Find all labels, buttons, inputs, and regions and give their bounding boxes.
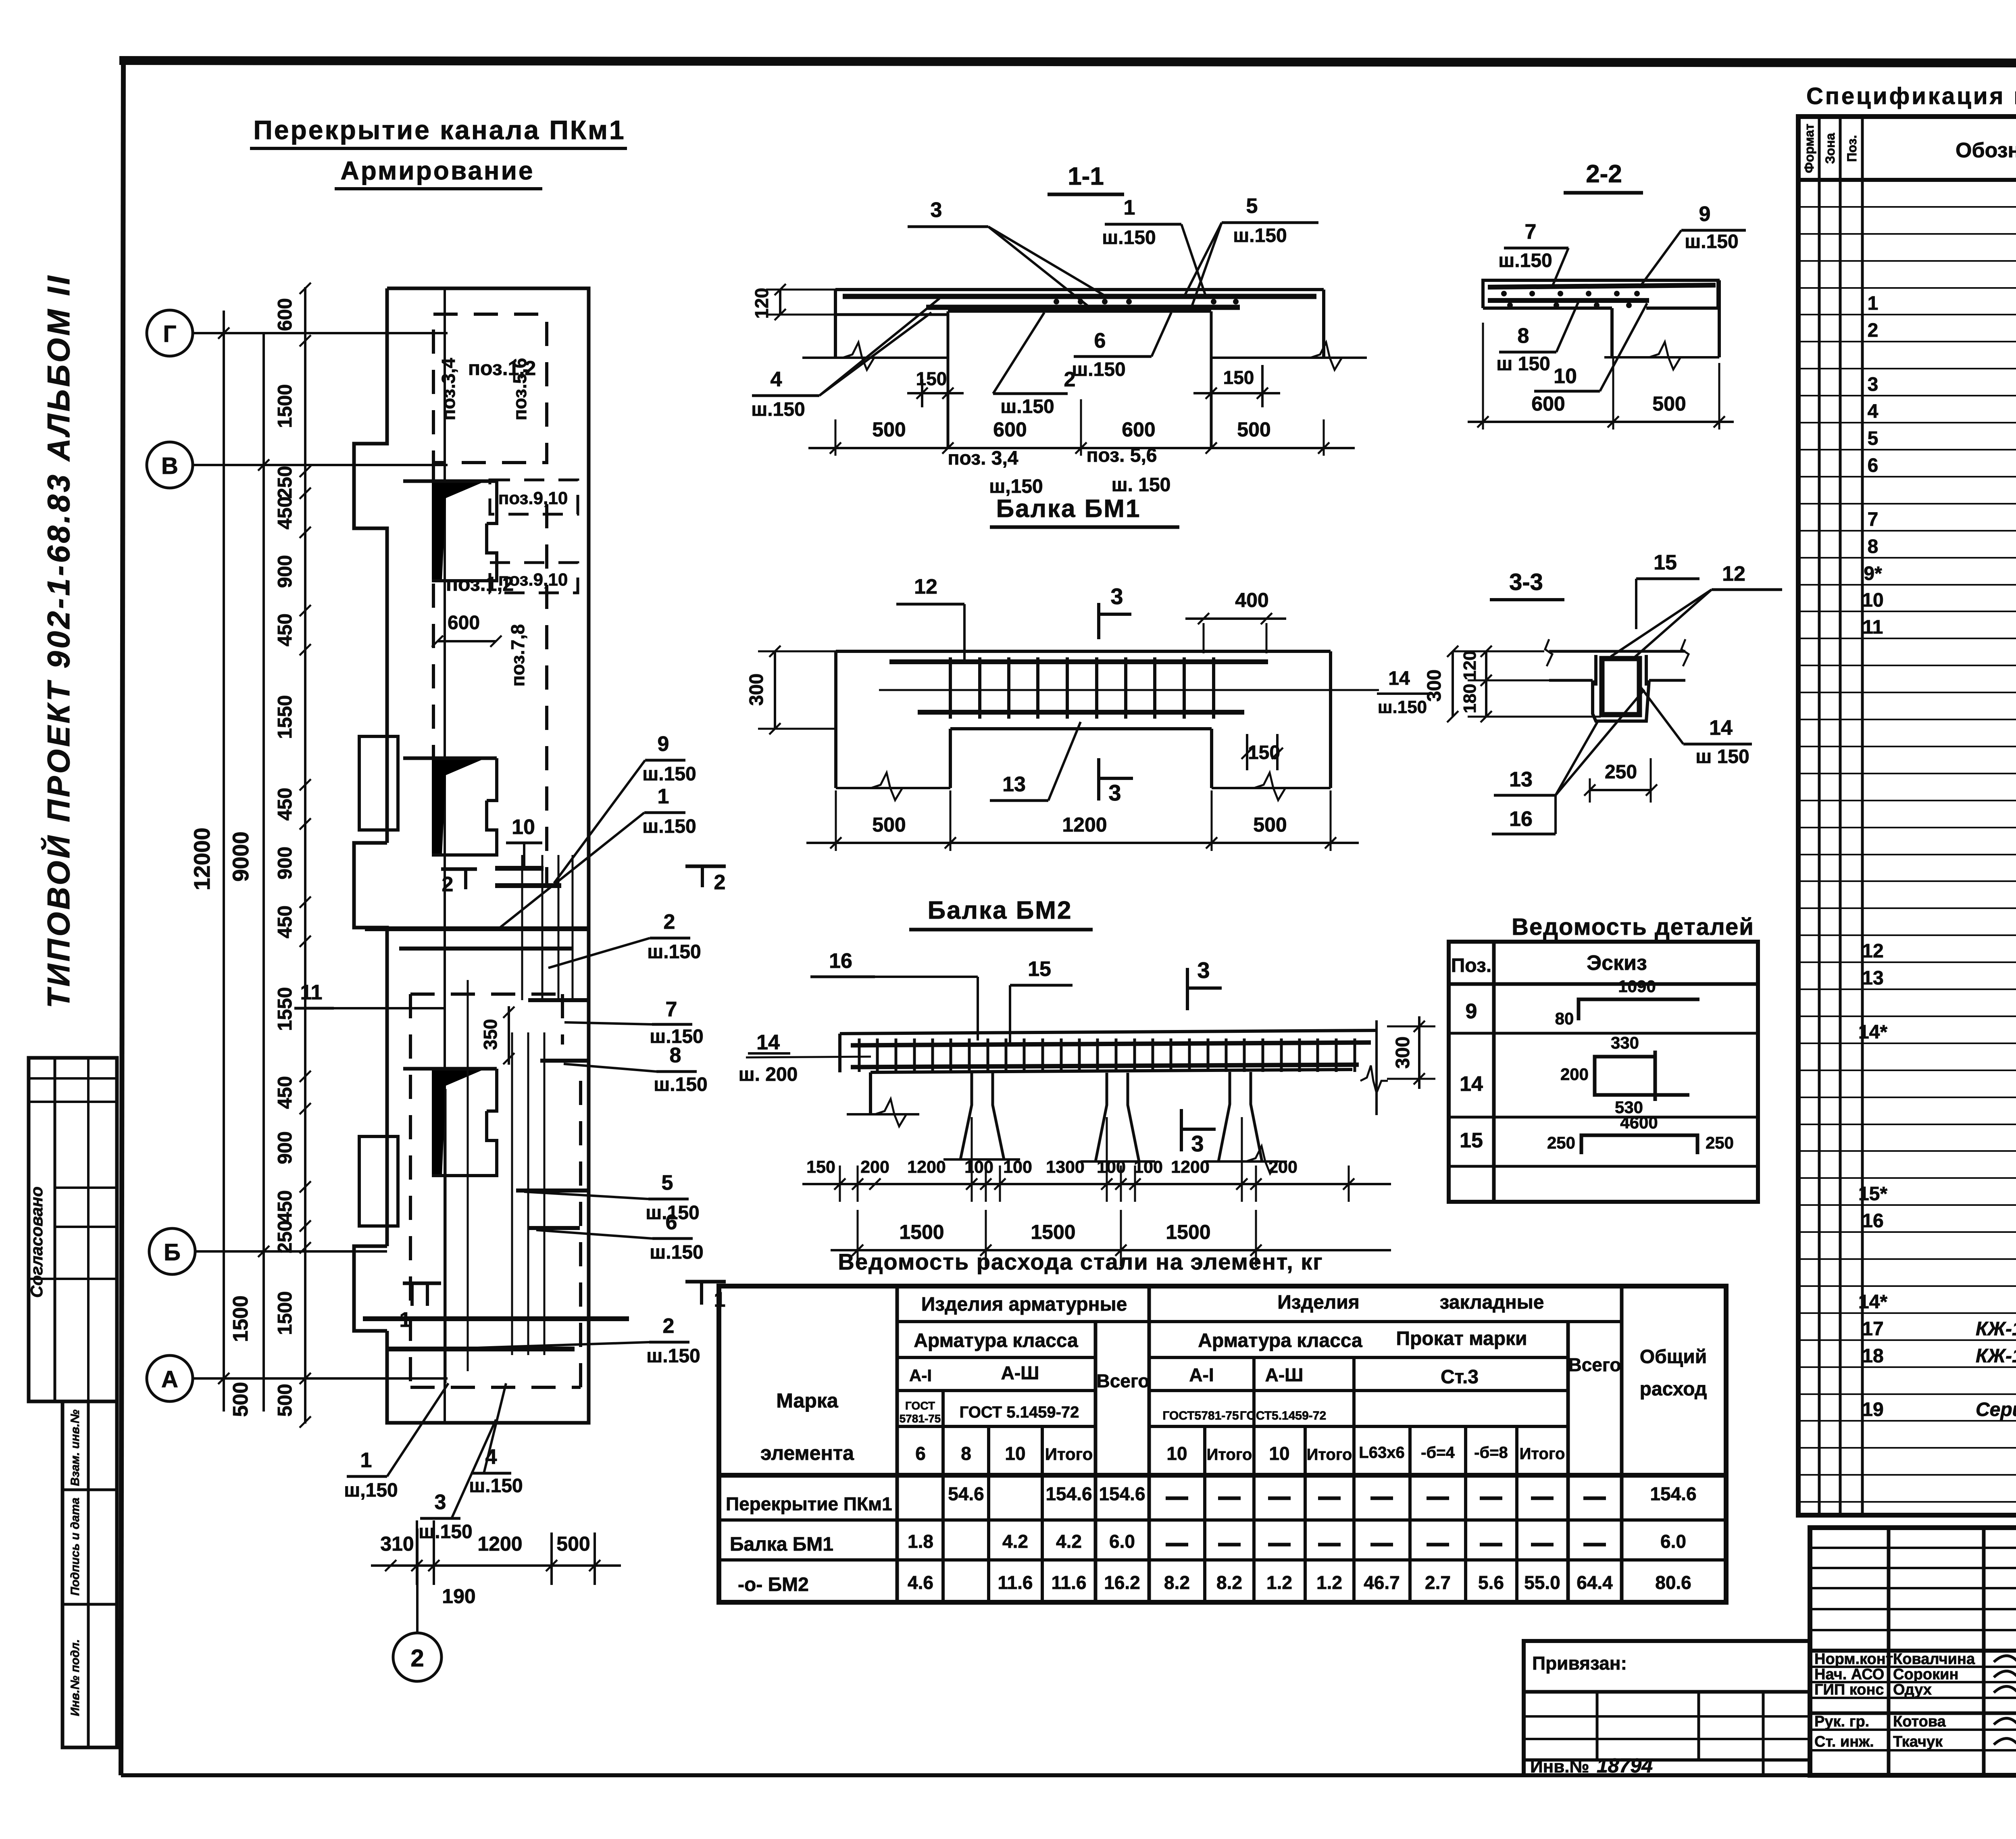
svg-text:4.2: 4.2 bbox=[1002, 1531, 1028, 1552]
long thin bar verticals bbox=[521, 855, 523, 1000]
svg-text:1500: 1500 bbox=[899, 1221, 944, 1243]
svg-text:350: 350 bbox=[480, 1019, 501, 1050]
svg-text:14*: 14* bbox=[1858, 1291, 1887, 1313]
svg-text:Перекрытие ПКм1: Перекрытие ПКм1 bbox=[726, 1493, 892, 1514]
svg-text:12: 12 bbox=[914, 575, 937, 598]
svg-text:В: В bbox=[161, 453, 178, 479]
svg-text:1: 1 bbox=[1868, 293, 1879, 314]
svg-text:15*: 15* bbox=[1858, 1183, 1887, 1205]
svg-text:5: 5 bbox=[1868, 428, 1879, 449]
svg-text:ш. 150: ш. 150 bbox=[1112, 474, 1171, 496]
svg-text:2: 2 bbox=[663, 1314, 675, 1338]
section mark 2T left bbox=[441, 867, 477, 871]
section mark T2 right bbox=[685, 865, 726, 868]
dim 250 bbox=[1590, 789, 1652, 791]
svg-text:1300: 1300 bbox=[1046, 1157, 1085, 1177]
BM2 dim row 1 bbox=[802, 1183, 1391, 1185]
svg-text:ш.150: ш.150 bbox=[650, 1242, 703, 1263]
svg-text:8.2: 8.2 bbox=[1164, 1572, 1190, 1593]
ground break lines 1-1 bbox=[802, 357, 948, 359]
signoff rows bbox=[1810, 1666, 2016, 1668]
svg-text:1.2: 1.2 bbox=[1266, 1572, 1292, 1593]
dashed zone top rect bbox=[433, 314, 547, 463]
slab outline 1-1 bbox=[835, 288, 1324, 291]
svg-text:1.2: 1.2 bbox=[1316, 1572, 1342, 1593]
svg-text:900: 900 bbox=[274, 1131, 296, 1164]
BM1 top bar bbox=[889, 659, 1268, 664]
axis circle А bbox=[147, 1355, 193, 1401]
svg-text:500: 500 bbox=[1253, 813, 1287, 836]
svg-text:поз.5,6: поз.5,6 bbox=[509, 358, 530, 421]
svg-text:ш.150: ш.150 bbox=[1685, 231, 1738, 252]
svg-text:11.6: 11.6 bbox=[998, 1572, 1033, 1593]
svg-text:310: 310 bbox=[380, 1532, 414, 1555]
svg-text:1: 1 bbox=[1124, 196, 1135, 219]
svg-text:11: 11 bbox=[300, 981, 323, 1004]
svg-text:Г: Г bbox=[163, 321, 177, 347]
svg-text:4600: 4600 bbox=[1620, 1113, 1658, 1132]
svg-text:поз.3,4: поз.3,4 bbox=[438, 358, 459, 420]
steel horizontals bbox=[897, 1320, 1622, 1323]
small left notch boxes bbox=[359, 736, 398, 830]
plan outline bbox=[387, 288, 589, 1423]
svg-text:3: 3 bbox=[1191, 1131, 1204, 1156]
svg-text:Котова: Котова bbox=[1893, 1713, 1946, 1730]
svg-text:10: 10 bbox=[1862, 590, 1883, 611]
svg-text:64.4: 64.4 bbox=[1577, 1572, 1613, 1593]
svg-text:12: 12 bbox=[1862, 940, 1883, 962]
svg-text:1500: 1500 bbox=[274, 384, 296, 428]
BM1 leader line 14 bbox=[879, 689, 1379, 691]
svg-text:ш.150: ш.150 bbox=[751, 399, 805, 420]
svg-text:6.0: 6.0 bbox=[1660, 1531, 1686, 1552]
svg-text:Поз.: Поз. bbox=[1845, 135, 1859, 162]
svg-text:Всего: Всего bbox=[1096, 1370, 1149, 1391]
BM1 outline bbox=[836, 650, 1331, 653]
svg-text:100: 100 bbox=[1134, 1157, 1163, 1177]
svg-text:1200: 1200 bbox=[907, 1157, 946, 1177]
svg-text:200: 200 bbox=[1560, 1065, 1589, 1084]
svg-text:1-1: 1-1 bbox=[1068, 163, 1104, 190]
svg-text:16.2: 16.2 bbox=[1104, 1572, 1140, 1593]
dashes row1 and row2 bbox=[1166, 1497, 1188, 1500]
svg-text:8: 8 bbox=[1868, 536, 1879, 557]
svg-text:Серия 3.400- 6/76: Серия 3.400- 6/76 bbox=[1976, 1399, 2016, 1420]
svg-text:Армирование: Армирование bbox=[340, 156, 534, 185]
svg-text:ГИП конс: ГИП конс bbox=[1814, 1681, 1884, 1698]
svg-text:1500: 1500 bbox=[1031, 1221, 1075, 1243]
svg-text:Прокат марки: Прокат марки bbox=[1396, 1328, 1527, 1349]
svg-text:1500: 1500 bbox=[229, 1295, 252, 1342]
svg-text:16: 16 bbox=[829, 949, 852, 973]
BM1 dim 400 bbox=[1203, 623, 1205, 653]
svg-text:Сорокин: Сорокин bbox=[1893, 1666, 1958, 1683]
svg-text:Итого: Итого bbox=[1045, 1445, 1093, 1464]
svg-text:Изделия арматурные: Изделия арматурные bbox=[921, 1294, 1127, 1315]
svg-text:поз. 3,4: поз. 3,4 bbox=[948, 448, 1018, 469]
svg-text:ГОСТ 5.1459-72: ГОСТ 5.1459-72 bbox=[960, 1403, 1079, 1421]
svg-text:ш.150: ш.150 bbox=[1000, 396, 1054, 417]
svg-text:1090: 1090 bbox=[1618, 977, 1656, 996]
svg-text:-б=4: -б=4 bbox=[1421, 1444, 1455, 1462]
svg-text:ш.150: ш.150 bbox=[1102, 227, 1156, 248]
svg-text:1: 1 bbox=[360, 1449, 372, 1472]
svg-text:3: 3 bbox=[1110, 584, 1123, 609]
BM1 bottom dims bbox=[835, 790, 837, 851]
svg-text:Норм.конт: Норм.конт bbox=[1814, 1651, 1893, 1668]
axis line А bbox=[193, 1377, 448, 1380]
BM1 bottom bar bbox=[918, 710, 1244, 715]
svg-text:1500: 1500 bbox=[274, 1291, 296, 1335]
dim 150 right wall bbox=[1261, 365, 1264, 407]
svg-text:2: 2 bbox=[1868, 320, 1879, 341]
svg-text:13: 13 bbox=[1002, 773, 1026, 796]
svg-text:Формат: Формат bbox=[1802, 124, 1816, 173]
svg-text:1500: 1500 bbox=[1166, 1221, 1210, 1243]
svg-text:200: 200 bbox=[1268, 1157, 1297, 1177]
axis line Б bbox=[195, 1250, 387, 1253]
svg-text:Всего: Всего bbox=[1568, 1354, 1621, 1375]
svg-text:ш 150: ш 150 bbox=[1496, 353, 1550, 375]
svg-text:600: 600 bbox=[993, 418, 1027, 441]
svg-text:Привязан:: Привязан: bbox=[1532, 1653, 1627, 1674]
svg-text:14*: 14* bbox=[1858, 1022, 1887, 1043]
BM2 top bar bbox=[851, 1043, 1371, 1045]
svg-text:13: 13 bbox=[1509, 768, 1533, 791]
axis line В bbox=[193, 464, 448, 466]
svg-text:15: 15 bbox=[1460, 1129, 1483, 1152]
left small rows bbox=[1810, 1547, 2016, 1549]
svg-text:ш.150: ш.150 bbox=[646, 1345, 700, 1367]
svg-text:300: 300 bbox=[1392, 1036, 1414, 1069]
svg-text:ш. 200: ш. 200 bbox=[739, 1064, 798, 1085]
svg-text:Инв.№: Инв.№ bbox=[1530, 1757, 1589, 1776]
BM2 stirrups bbox=[858, 1038, 861, 1072]
svg-text:Ведомость расхода стали: Ведомость расхода стали на элемент, кг bbox=[838, 1249, 1323, 1274]
svg-text:330: 330 bbox=[1611, 1033, 1639, 1052]
dim 300 bbox=[1452, 651, 1454, 717]
spec header row bbox=[1798, 178, 2016, 182]
svg-text:600: 600 bbox=[1122, 418, 1155, 441]
svg-text:Спецификация перекрытия ка: Спецификация перекрытия канала ПКм1 и ба… bbox=[1806, 83, 2016, 109]
svg-text:А: А bbox=[161, 1366, 178, 1393]
BM1 section mark 3 top bbox=[1097, 603, 1100, 639]
privyazan box bbox=[1524, 1641, 1810, 1775]
svg-text:250: 250 bbox=[1605, 761, 1637, 783]
svg-text:16: 16 bbox=[1509, 807, 1533, 831]
title block outer bbox=[1810, 1528, 2016, 1775]
svg-text:7: 7 bbox=[1525, 220, 1537, 244]
bottom dims 1-1 bbox=[808, 447, 1355, 449]
svg-text:80: 80 bbox=[1555, 1009, 1574, 1028]
svg-text:ш 150: ш 150 bbox=[1695, 746, 1749, 767]
svg-text:14: 14 bbox=[1709, 716, 1733, 740]
svg-text:300: 300 bbox=[1424, 669, 1445, 702]
svg-text:54.6: 54.6 bbox=[948, 1483, 984, 1504]
svg-text:ТИПОВОЙ ПРОЕКТ 902-1-68.83 АЛЬ: ТИПОВОЙ ПРОЕКТ 902-1-68.83 АЛЬБОМ II bbox=[41, 273, 76, 1008]
svg-text:600: 600 bbox=[448, 612, 480, 634]
svg-text:600: 600 bbox=[1531, 392, 1565, 415]
svg-text:Зона: Зона bbox=[1823, 133, 1837, 164]
svg-text:элемента: элемента bbox=[760, 1442, 854, 1464]
svg-text:14: 14 bbox=[756, 1031, 780, 1054]
svg-text:5: 5 bbox=[1246, 194, 1258, 218]
svg-text:1200: 1200 bbox=[477, 1532, 522, 1555]
svg-text:А-I: А-I bbox=[909, 1366, 932, 1385]
svg-text:10: 10 bbox=[1005, 1443, 1025, 1464]
svg-text:154.6: 154.6 bbox=[1099, 1483, 1145, 1504]
BM2 legs bbox=[869, 1072, 872, 1114]
svg-text:14: 14 bbox=[1388, 668, 1410, 689]
svg-text:6.0: 6.0 bbox=[1109, 1531, 1135, 1552]
section mark T1 right bbox=[685, 1280, 726, 1284]
svg-text:154.6: 154.6 bbox=[1045, 1483, 1092, 1504]
spec thin row lines bbox=[1798, 206, 2016, 208]
svg-text:ш.150: ш.150 bbox=[654, 1074, 707, 1095]
svg-text:6: 6 bbox=[1868, 455, 1879, 476]
axis circle Г bbox=[147, 310, 193, 356]
svg-text:Итого: Итого bbox=[1307, 1446, 1352, 1464]
break line 2-2 bbox=[1604, 356, 1719, 359]
title block verticals bbox=[1887, 1528, 1891, 1775]
svg-text:10: 10 bbox=[1166, 1443, 1187, 1464]
svg-text:100: 100 bbox=[1003, 1157, 1032, 1177]
svg-text:3: 3 bbox=[931, 198, 942, 222]
svg-text:ш.150: ш.150 bbox=[647, 941, 701, 963]
svg-text:ш.150: ш.150 bbox=[419, 1521, 472, 1543]
steel table frame bbox=[719, 1286, 1726, 1602]
svg-text:2-2: 2-2 bbox=[1586, 160, 1622, 188]
svg-text:1: 1 bbox=[658, 785, 669, 808]
svg-text:7: 7 bbox=[666, 998, 677, 1021]
svg-text:Балка БМ1: Балка БМ1 bbox=[730, 1534, 833, 1555]
svg-text:Перекрытие канала ПКм1: Перекрытие канала ПКм1 bbox=[253, 115, 625, 145]
svg-text:1550: 1550 bbox=[274, 987, 296, 1031]
svg-text:Одух: Одух bbox=[1893, 1681, 1932, 1698]
svg-text:Ткачук: Ткачук bbox=[1893, 1733, 1943, 1750]
svg-text:300: 300 bbox=[746, 673, 767, 706]
svg-text:Б: Б bbox=[164, 1239, 181, 1266]
lower rebar pos8 bbox=[1488, 298, 1649, 303]
svg-text:500: 500 bbox=[872, 813, 906, 836]
svg-text:180: 180 bbox=[1460, 684, 1480, 713]
svg-text:-б=8: -б=8 bbox=[1474, 1444, 1508, 1462]
svg-text:10: 10 bbox=[1554, 365, 1577, 388]
svg-text:ш.150: ш.150 bbox=[1498, 250, 1552, 271]
svg-text:2: 2 bbox=[410, 1645, 424, 1672]
svg-text:4.6: 4.6 bbox=[908, 1572, 933, 1593]
svg-text:150: 150 bbox=[806, 1157, 835, 1177]
BM1 dim 300 left bbox=[774, 651, 776, 729]
svg-text:Обозначение: Обозначение bbox=[1956, 139, 2016, 162]
dimension line 9000 bbox=[262, 333, 265, 1412]
svg-text:500: 500 bbox=[872, 418, 906, 441]
svg-text:Изделия: Изделия bbox=[1277, 1292, 1360, 1313]
sheet border frame bbox=[119, 60, 2016, 64]
svg-text:10: 10 bbox=[512, 815, 535, 839]
svg-text:Балка БМ2: Балка БМ2 bbox=[928, 897, 1073, 924]
svg-text:9: 9 bbox=[1699, 202, 1711, 226]
svg-text:250: 250 bbox=[274, 1220, 296, 1253]
svg-text:4: 4 bbox=[1868, 401, 1879, 422]
svg-text:10: 10 bbox=[1269, 1443, 1289, 1464]
svg-text:Рук. гр.: Рук. гр. bbox=[1814, 1713, 1869, 1730]
BM1 dim 150 bbox=[1246, 734, 1248, 770]
svg-text:ш.150: ш.150 bbox=[642, 816, 696, 837]
svg-text:18: 18 bbox=[1862, 1345, 1883, 1367]
svg-text:1550: 1550 bbox=[274, 695, 296, 739]
svg-text:А-I: А-I bbox=[1189, 1364, 1214, 1385]
svg-text:Общий: Общий bbox=[1640, 1346, 1707, 1368]
svg-text:Подпись и дата: Подпись и дата bbox=[69, 1497, 82, 1595]
svg-text:250: 250 bbox=[1706, 1133, 1734, 1152]
svg-text:3: 3 bbox=[1197, 957, 1210, 983]
svg-text:Итого: Итого bbox=[1520, 1445, 1565, 1463]
svg-text:ш,150: ш,150 bbox=[989, 476, 1043, 497]
svg-text:Эскиз: Эскиз bbox=[1587, 951, 1647, 975]
svg-text:1.8: 1.8 bbox=[908, 1531, 933, 1552]
svg-text:15: 15 bbox=[1028, 957, 1051, 981]
inner longitudinal line bbox=[444, 288, 446, 1423]
svg-text:11.6: 11.6 bbox=[1052, 1572, 1087, 1593]
svg-text:Инв.№ подл.: Инв.№ подл. bbox=[69, 1639, 82, 1716]
svg-text:900: 900 bbox=[274, 847, 296, 880]
svg-text:6: 6 bbox=[915, 1443, 926, 1464]
dimension line 12000 bbox=[223, 311, 225, 1412]
svg-text:ГОСТ: ГОСТ bbox=[905, 1399, 935, 1412]
svg-text:закладные: закладные bbox=[1440, 1292, 1544, 1313]
hatched wedge teeth (slab steps) bbox=[432, 481, 482, 581]
svg-text:400: 400 bbox=[1235, 589, 1268, 611]
svg-text:17: 17 bbox=[1862, 1318, 1883, 1340]
svg-text:ш.150: ш.150 bbox=[642, 763, 696, 785]
top rebar pos9 bbox=[1488, 285, 1716, 287]
BM2 section mark 3 bottom bbox=[1180, 1109, 1183, 1151]
svg-text:1: 1 bbox=[400, 1308, 411, 1332]
svg-text:1200: 1200 bbox=[1171, 1157, 1210, 1177]
axis line Г bbox=[193, 332, 448, 334]
svg-text:Нач. АСО: Нач. АСО bbox=[1814, 1666, 1884, 1683]
svg-text:450: 450 bbox=[274, 905, 296, 938]
svg-text:500: 500 bbox=[1237, 418, 1270, 441]
svg-text:46.7: 46.7 bbox=[1364, 1572, 1400, 1593]
row line above signoff bbox=[1810, 1649, 2016, 1653]
svg-text:190: 190 bbox=[442, 1585, 475, 1608]
svg-text:250: 250 bbox=[1547, 1133, 1575, 1152]
svg-text:8: 8 bbox=[670, 1044, 681, 1067]
rebar dots bbox=[1054, 299, 1059, 304]
svg-text:5781-75: 5781-75 bbox=[900, 1412, 941, 1425]
svg-text:14: 14 bbox=[1460, 1072, 1483, 1096]
section mark 1T left bbox=[403, 1282, 441, 1285]
axis circle В bbox=[147, 442, 193, 488]
svg-text:900: 900 bbox=[274, 555, 296, 588]
svg-text:9*: 9* bbox=[1864, 563, 1882, 584]
svg-text:200: 200 bbox=[860, 1157, 889, 1177]
svg-text:100: 100 bbox=[964, 1157, 993, 1177]
svg-text:2.7: 2.7 bbox=[1425, 1572, 1451, 1593]
svg-text:12: 12 bbox=[1722, 562, 1745, 586]
dims 2-2 bbox=[1482, 323, 1484, 430]
svg-text:КЖ-19: КЖ-19 bbox=[1976, 1345, 2016, 1367]
svg-text:8: 8 bbox=[1518, 324, 1529, 348]
details table frame bbox=[1449, 942, 1758, 1202]
BM1 stirrups bbox=[949, 657, 952, 719]
svg-text:16: 16 bbox=[1862, 1210, 1883, 1232]
top rebar pos1 bbox=[843, 294, 1316, 299]
svg-text:5: 5 bbox=[662, 1171, 673, 1195]
BM2 dim row1 extensions bbox=[839, 1166, 841, 1202]
approval stamp table bbox=[29, 1058, 117, 1401]
dim 150 left wall bbox=[921, 379, 923, 407]
svg-text:55.0: 55.0 bbox=[1524, 1572, 1560, 1593]
svg-text:расход: расход bbox=[1640, 1378, 1707, 1400]
svg-text:поз.9,10: поз.9,10 bbox=[498, 570, 568, 590]
svg-text:Ковалчина: Ковалчина bbox=[1893, 1651, 1975, 1668]
lower rebar pos2 bbox=[926, 305, 1240, 310]
svg-text:ГОСТ5.1459-72: ГОСТ5.1459-72 bbox=[1240, 1409, 1326, 1422]
svg-text:3: 3 bbox=[435, 1491, 446, 1514]
svg-text:А-Ш: А-Ш bbox=[1265, 1364, 1304, 1385]
svg-text:2: 2 bbox=[664, 910, 675, 934]
svg-text:500: 500 bbox=[229, 1382, 252, 1417]
thick rebar plan bars bbox=[495, 866, 544, 871]
beam rebar frame 3-3 bbox=[1602, 659, 1639, 715]
svg-text:4.2: 4.2 bbox=[1056, 1531, 1082, 1552]
wall verticals 1-1 bbox=[947, 311, 950, 448]
svg-text:13: 13 bbox=[1862, 967, 1883, 989]
svg-text:150: 150 bbox=[1248, 742, 1280, 763]
svg-text:Арматура класса: Арматура класса bbox=[914, 1330, 1078, 1351]
svg-text:ш.150: ш.150 bbox=[1072, 359, 1125, 380]
svg-text:1200: 1200 bbox=[1062, 813, 1107, 836]
svg-text:4: 4 bbox=[771, 368, 782, 391]
rebar dots 2-2 bbox=[1501, 291, 1507, 296]
svg-text:поз.7,8: поз.7,8 bbox=[507, 624, 528, 687]
svg-text:80.6: 80.6 bbox=[1655, 1572, 1691, 1593]
svg-text:ГОСТ5781-75: ГОСТ5781-75 bbox=[1162, 1409, 1239, 1422]
svg-text:8.2: 8.2 bbox=[1216, 1572, 1242, 1593]
BM2 section mark 3 top bbox=[1186, 968, 1189, 1010]
BM2 outline bbox=[840, 1030, 1377, 1034]
svg-text:6: 6 bbox=[666, 1211, 677, 1234]
dims 120 180 bbox=[1485, 651, 1487, 717]
svg-text:600: 600 bbox=[274, 298, 296, 331]
beam outline 3-3 bbox=[1593, 680, 1649, 721]
svg-text:Взам. инв.№: Взам. инв.№ bbox=[69, 1409, 82, 1486]
svg-text:поз. 5,6: поз. 5,6 bbox=[1087, 445, 1157, 466]
svg-text:154.6: 154.6 bbox=[1650, 1483, 1696, 1504]
axis circle Б bbox=[149, 1228, 195, 1274]
svg-text:11: 11 bbox=[1863, 617, 1883, 638]
svg-text:12000: 12000 bbox=[189, 828, 215, 890]
svg-text:3: 3 bbox=[1108, 780, 1121, 805]
svg-text:7: 7 bbox=[1868, 509, 1879, 530]
svg-text:250: 250 bbox=[274, 466, 296, 499]
svg-text:2: 2 bbox=[442, 873, 454, 896]
svg-text:500: 500 bbox=[556, 1532, 590, 1555]
svg-text:2: 2 bbox=[714, 871, 726, 894]
svg-text:А-Ш: А-Ш bbox=[1001, 1362, 1039, 1383]
svg-text:450: 450 bbox=[274, 1076, 296, 1109]
svg-text:КЖ-19: КЖ-19 bbox=[1976, 1318, 2016, 1340]
svg-text:18794: 18794 bbox=[1597, 1754, 1653, 1777]
dim 120 left bbox=[779, 290, 781, 315]
BM1 section mark 3 bottom bbox=[1097, 758, 1100, 801]
right wall 2-2 bbox=[1718, 280, 1721, 357]
steel verticals bbox=[896, 1286, 899, 1602]
svg-text:Итого: Итого bbox=[1207, 1446, 1252, 1464]
